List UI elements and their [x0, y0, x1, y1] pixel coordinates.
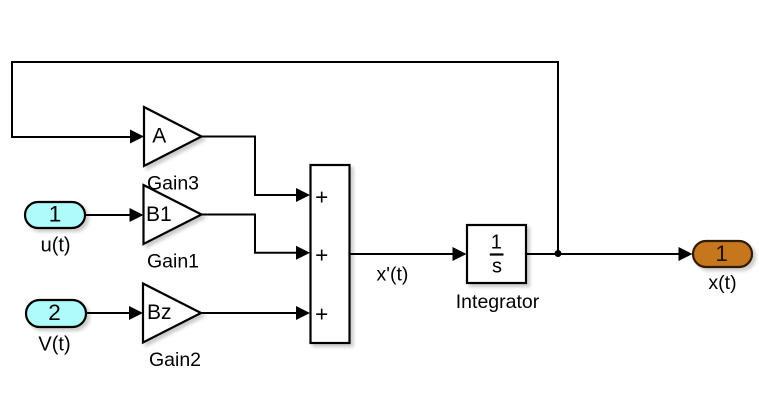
- wire inport 2 to Gain2 input: [86, 306, 143, 320]
- svg-text:1: 1: [491, 232, 502, 254]
- svg-text:Gain1: Gain1: [147, 251, 199, 273]
- label signal x'(t): [377, 264, 409, 286]
- label Gain2: [149, 349, 201, 371]
- junction node N1: [555, 250, 562, 257]
- outport 1 x(t): [693, 241, 752, 267]
- svg-text:B1: B1: [146, 203, 172, 226]
- svg-text:1: 1: [49, 202, 62, 227]
- integrator block 1/s: [467, 225, 526, 283]
- svg-text:x'(t): x'(t): [377, 264, 409, 286]
- gain A (Gain3): [144, 107, 202, 166]
- wire Gain1 output to sum input 2: [202, 215, 311, 260]
- wire inport 1 to Gain1 input: [85, 208, 144, 222]
- wire sum output to Integrator input, node x'(t): [350, 247, 467, 261]
- svg-text:A: A: [152, 124, 166, 147]
- label Gain3: [147, 173, 199, 195]
- svg-text:x(t): x(t): [708, 272, 736, 294]
- label Integrator: [456, 291, 540, 313]
- label x(t): [708, 272, 736, 294]
- svg-text:u(t): u(t): [41, 235, 71, 257]
- svg-text:V(t): V(t): [38, 334, 70, 356]
- label Gain1: [147, 251, 199, 273]
- svg-text:Bz: Bz: [147, 301, 172, 324]
- svg-text:+: +: [315, 242, 328, 267]
- svg-text:Gain2: Gain2: [149, 349, 201, 371]
- gain B1 (Gain1): [144, 185, 202, 244]
- inport 2 V(t): [26, 300, 86, 327]
- svg-text:Integrator: Integrator: [456, 291, 540, 313]
- wire feedback loop from node N1 to Gain3 input: [12, 62, 558, 253]
- label u(t): [41, 235, 71, 257]
- inport 1 u(t): [25, 202, 85, 229]
- wire Gain2 output to sum input 3: [201, 306, 310, 320]
- svg-text:+: +: [315, 302, 328, 327]
- svg-text:+: +: [315, 184, 328, 209]
- sum block Add: [311, 165, 350, 343]
- wire Integrator output to outport: [526, 247, 693, 261]
- wire Gain3 output to sum input 1: [202, 137, 311, 203]
- svg-text:s: s: [492, 255, 502, 277]
- label V(t): [38, 334, 70, 356]
- svg-text:2: 2: [48, 300, 61, 325]
- svg-text:1: 1: [715, 241, 728, 266]
- gain Bz (Gain2): [143, 284, 201, 343]
